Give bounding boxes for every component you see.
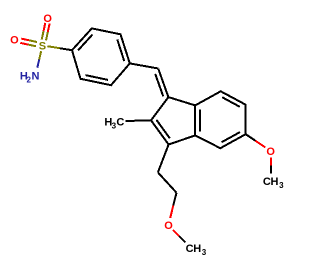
svg-text:C: C	[116, 116, 124, 128]
svg-text:3: 3	[202, 248, 207, 257]
bond S=O left line2	[20, 43, 36, 46]
bond CA=CB inner	[78, 35, 92, 51]
bond C4=C5 inner	[222, 132, 240, 142]
bond S=O left line1	[21, 39, 37, 42]
svg-text:3: 3	[279, 181, 284, 190]
bond O4-CH3 bottom	[173, 230, 186, 243]
svg-text:H: H	[271, 176, 279, 188]
bond C7a=C3a inner	[199, 109, 201, 131]
svg-text:N: N	[32, 71, 40, 83]
pentagon C1-C2-C3-C3a-C7a	[151, 97, 195, 144]
bond S-N	[37, 51, 41, 67]
bond C3-C9 chain	[158, 145, 169, 173]
svg-text:H: H	[193, 243, 201, 255]
bond C5-O3 methoxy	[246, 134, 266, 147]
bond S=O top line2	[42, 23, 46, 40]
bond CD-CH bridge	[130, 63, 158, 68]
bond C10-O4	[170, 193, 176, 218]
bond C2-CH3 methyl	[126, 119, 152, 122]
bond CH=C1 main	[158, 69, 168, 98]
bond C9-C10 chain	[158, 172, 177, 192]
benzene ring 2 outline	[195, 91, 246, 148]
svg-text:O: O	[43, 13, 52, 25]
svg-text:O: O	[10, 35, 19, 47]
bond C2=C3 inner	[156, 120, 169, 139]
bond C7=C6 inner	[222, 97, 240, 107]
svg-text:O: O	[164, 220, 173, 232]
bond O3-CH3	[270, 158, 272, 174]
svg-text:O: O	[266, 146, 275, 158]
benzene ring 1 outline	[72, 28, 130, 85]
bond CH=C1 inner	[155, 74, 163, 97]
bond CE=CF inner	[85, 75, 108, 80]
svg-text:S: S	[39, 41, 46, 53]
bond S-CA	[47, 46, 72, 50]
bond S=O top line1 (red/olive split)	[46, 24, 50, 41]
bond CC=CD inner	[117, 40, 124, 62]
